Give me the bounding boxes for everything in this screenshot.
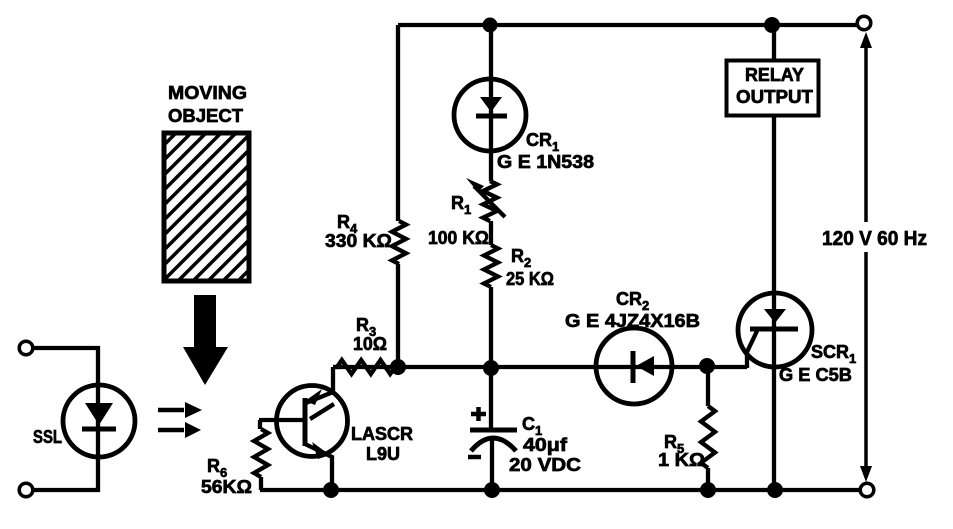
wire: R3 left stub to collector corner	[333, 365, 340, 369]
wire: top rail from R4 branch to 120V terminal	[398, 23, 857, 27]
motion direction arrow (big down arrow)	[183, 295, 228, 385]
svg-text:SSL: SSL	[33, 427, 62, 447]
wire: relay box through SCR1 anode/cathode to bottom rail	[772, 114, 776, 490]
svg-text:1 KΩ: 1 KΩ	[658, 450, 705, 470]
node: junction bottom rail / R5	[700, 482, 716, 498]
svg-text:20 VDC: 20 VDC	[509, 455, 581, 475]
terminal: 120V top	[857, 16, 871, 30]
node: junction mid rail / left vertical branch	[390, 359, 406, 375]
svg-text:56KΩ: 56KΩ	[201, 477, 252, 497]
svg-text:G E 4JZ4X16B: G E 4JZ4X16B	[565, 311, 700, 331]
relay output box	[727, 61, 819, 116]
svg-text:330 KΩ: 330 KΩ	[325, 231, 392, 251]
SCR SCR1 GE C5B (circle with thyristor)	[738, 293, 812, 367]
svg-text:120 V 60 Hz: 120 V 60 Hz	[822, 228, 927, 250]
photodiode SSL (circle with down diode)	[63, 385, 135, 457]
node: junction mid rail / C1 branch	[483, 360, 499, 376]
light ray arrow upper	[158, 402, 202, 418]
svg-text:OBJECT: OBJECT	[168, 106, 243, 126]
svg-text:L9U: L9U	[366, 444, 400, 464]
svg-text:100 KΩ: 100 KΩ	[428, 228, 489, 248]
wire: gate riser into SCR1	[747, 331, 757, 368]
wire: left vertical branch upper (top rail to R4)	[396, 25, 400, 221]
terminal: SSL top input	[19, 341, 33, 355]
diode CR1 GE 1N538 (circle with down diode)	[454, 79, 526, 151]
light ray arrow lower	[158, 422, 201, 438]
svg-text:RELAY: RELAY	[745, 65, 804, 85]
wire: SSL loop	[33, 348, 98, 490]
svg-text:G E C5B: G E C5B	[779, 365, 852, 385]
node: junction bottom rail / LASCR cathode	[323, 482, 339, 498]
resistor R6 56KΩ	[254, 420, 268, 490]
svg-text:10Ω: 10Ω	[353, 334, 387, 354]
resistor R4 330 KΩ	[392, 221, 406, 264]
wire: between R1 and R2	[489, 221, 493, 245]
diode CR2 GE 4JZ4X16B (circle with left-pointing diode)	[596, 328, 672, 404]
node: junction bottom rail / SCR1 cathode	[767, 482, 783, 498]
svg-text:LASCR: LASCR	[351, 424, 413, 444]
terminal: SSL bottom input	[19, 483, 33, 497]
dimension line 120 V 60 Hz with end arrows	[860, 32, 872, 482]
wire: R2 down to mid rail	[489, 287, 493, 367]
resistor R3 10Ω (horizontal)	[337, 360, 395, 374]
wire: relay branch from top rail to relay box	[772, 25, 776, 60]
transistor LASCR L9U (light-activated SCR)	[259, 367, 348, 491]
capacitor C1 40µf 20VDC (polarized)	[468, 368, 517, 491]
wire: CR1 anode lead from top rail	[489, 25, 493, 181]
node: junction mid rail / R5 branch	[699, 358, 715, 374]
svg-text:25 KΩ: 25 KΩ	[506, 269, 554, 289]
resistor R2 25 KΩ	[484, 245, 498, 287]
node: junction bottom rail / C1	[484, 482, 500, 498]
moving object hatched block	[144, 0, 314, 435]
wire: bottom rail	[260, 488, 860, 492]
potentiometer R1 100 KΩ (zigzag with arrow)	[466, 178, 505, 221]
node: junction top rail / relay branch	[764, 17, 780, 33]
svg-text:40μf: 40μf	[523, 435, 568, 455]
wire: left vertical branch lower (R4 to mid rail)	[396, 264, 400, 367]
svg-text:MOVING: MOVING	[168, 83, 247, 103]
wire: mid rail (gate bus) from LASCR corner through CR2 to SCR gate riser	[333, 365, 747, 369]
svg-text:OUTPUT: OUTPUT	[736, 87, 813, 107]
svg-text:G E 1N538: G E 1N538	[497, 152, 594, 172]
node: junction top rail / CR1 branch	[483, 18, 498, 33]
resistor R5 1 KΩ	[701, 366, 715, 490]
terminal: 120V bottom	[860, 483, 874, 497]
